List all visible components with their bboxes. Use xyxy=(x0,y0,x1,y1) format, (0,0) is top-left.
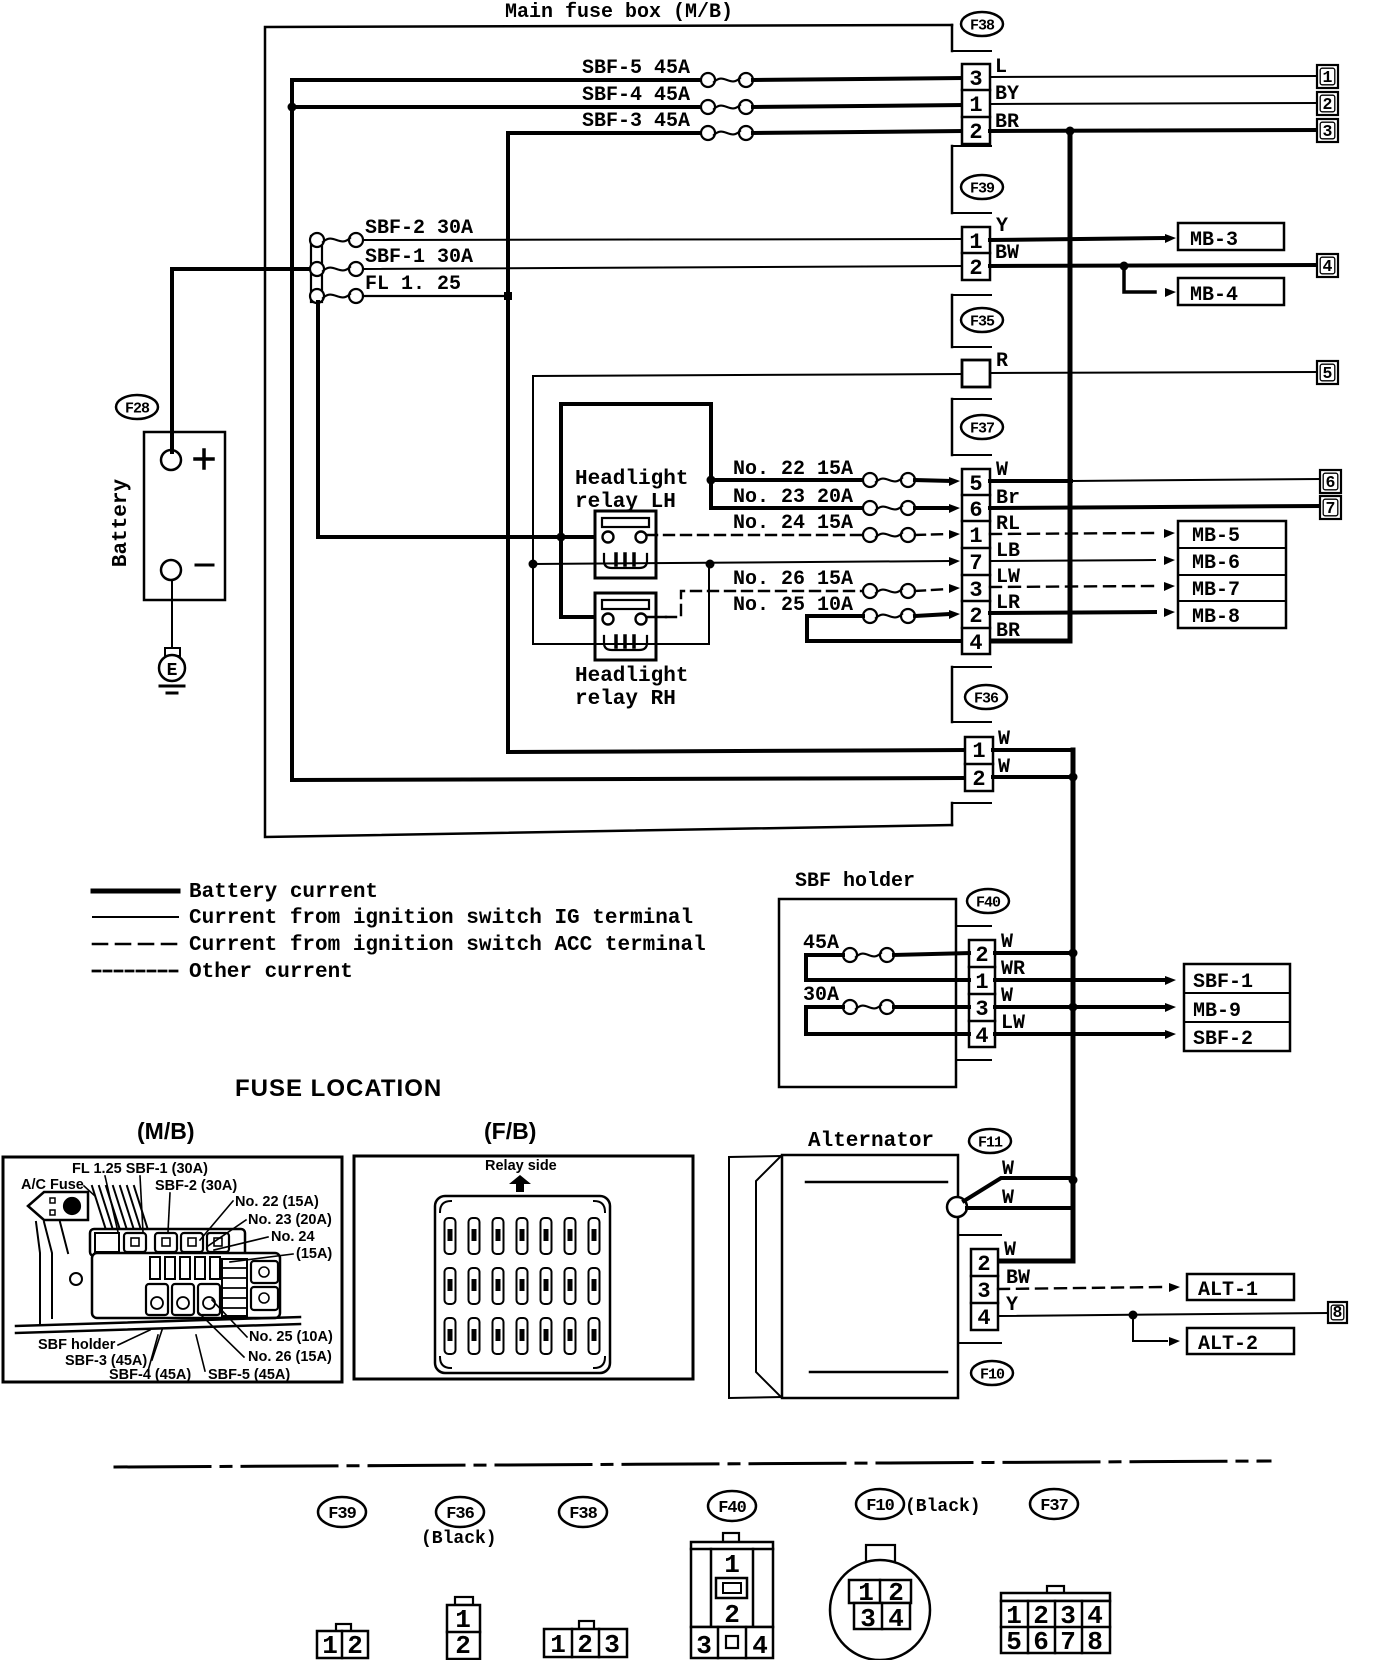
battery xyxy=(144,432,225,600)
svg-text:SBF-1: SBF-1 xyxy=(1193,971,1253,994)
wire No.24 dashed from relay LH xyxy=(647,534,863,536)
svg-text:W: W xyxy=(1004,1239,1016,1262)
MB-5..MB-8 box xyxy=(1178,521,1286,628)
junction BR bus xyxy=(1066,127,1075,136)
wire SBF-1 to F39 pin 2 xyxy=(363,266,962,269)
wire battery minus to ground xyxy=(171,580,173,648)
wire relay coil return loop xyxy=(533,564,709,644)
svg-text:2: 2 xyxy=(969,120,982,145)
svg-text:E: E xyxy=(167,661,178,681)
wire SBF-2 to F39 pin 1 xyxy=(363,239,962,240)
svg-text:Headlight: Headlight xyxy=(575,665,688,688)
connector F39 oval (bottom) xyxy=(318,1497,366,1527)
svg-text:6: 6 xyxy=(969,498,982,523)
connector F38 pins xyxy=(962,64,990,144)
svg-text:BY: BY xyxy=(995,83,1019,106)
svg-text:MB-3: MB-3 xyxy=(1190,229,1238,252)
wire branch to MB-4 xyxy=(1124,266,1155,292)
bottom separator dash-dot line xyxy=(115,1461,1270,1467)
junction pin3 W / bus xyxy=(1069,1003,1078,1012)
connector F35 oval xyxy=(961,308,1003,332)
svg-text:relay RH: relay RH xyxy=(575,688,676,711)
svg-text:MB-4: MB-4 xyxy=(1190,284,1238,307)
svg-text:45A: 45A xyxy=(803,932,839,955)
wire No.24 to F37 pin 1 xyxy=(915,534,948,535)
svg-text:Main fuse box (M/B): Main fuse box (M/B) xyxy=(505,1,733,24)
svg-text:F36: F36 xyxy=(974,690,999,707)
wire No.22 to F37 pin 5 xyxy=(915,480,950,481)
svg-text:F38: F38 xyxy=(970,17,995,34)
svg-text:SBF-3 45A: SBF-3 45A xyxy=(582,110,690,133)
connector 2 xyxy=(1317,92,1338,115)
M/B picture left bracket xyxy=(70,1273,82,1285)
fuse No.24 15A xyxy=(863,528,877,542)
svg-text:(Black): (Black) xyxy=(421,1529,497,1549)
svg-text:F10: F10 xyxy=(866,1497,894,1516)
M/B picture right sockets xyxy=(251,1261,278,1283)
svg-text:2: 2 xyxy=(1323,95,1333,114)
connector F35 pin R xyxy=(962,360,990,387)
connector 7 xyxy=(1320,496,1341,519)
svg-text:Relay side: Relay side xyxy=(485,1158,557,1174)
connector F11 oval xyxy=(969,1129,1011,1153)
svg-text:SBF-5 (45A): SBF-5 (45A) xyxy=(208,1367,290,1383)
fuse No.25 10A xyxy=(863,609,877,623)
M/B picture A/C fuse banner xyxy=(28,1192,88,1220)
SBF holder box xyxy=(779,899,956,1087)
MB-3 box xyxy=(1178,223,1284,250)
ground E circle xyxy=(159,655,185,681)
svg-text:5: 5 xyxy=(1323,364,1333,383)
SBF holder bracket stubs xyxy=(956,925,991,927)
junction battery bus / SBF-4 xyxy=(288,103,297,112)
svg-text:6: 6 xyxy=(1326,473,1336,492)
svg-text:No. 26 (15A): No. 26 (15A) xyxy=(248,1349,332,1365)
F/B picture frame xyxy=(354,1156,693,1379)
connector F36 pins xyxy=(965,737,993,791)
svg-text:F28: F28 xyxy=(125,400,150,417)
svg-text:ALT-1: ALT-1 xyxy=(1198,1279,1258,1302)
svg-text:F35: F35 xyxy=(970,313,995,330)
svg-text:2: 2 xyxy=(724,1600,740,1630)
legend other current xyxy=(93,970,178,973)
ALT-1 box xyxy=(1187,1274,1294,1300)
connector F39 oval xyxy=(961,175,1003,199)
svg-text:MB-5: MB-5 xyxy=(1192,525,1240,548)
svg-text:2: 2 xyxy=(969,604,982,629)
svg-text:No. 25 10A: No. 25 10A xyxy=(733,594,853,617)
svg-text:No. 24 15A: No. 24 15A xyxy=(733,512,853,535)
svg-text:Y: Y xyxy=(1006,1294,1018,1317)
svg-text:No. 23 20A: No. 23 20A xyxy=(733,486,853,509)
M/B picture ladder xyxy=(222,1259,247,1316)
svg-text:1: 1 xyxy=(969,524,982,549)
svg-text:R: R xyxy=(996,350,1008,373)
svg-text:F10: F10 xyxy=(980,1366,1005,1383)
wire No.23 to F37 pin 6 xyxy=(915,506,950,510)
connector F37 oval (bottom) xyxy=(1030,1489,1078,1519)
alternator body xyxy=(782,1155,958,1398)
svg-text:5: 5 xyxy=(1006,1627,1022,1657)
connector F10 round face xyxy=(866,1545,895,1562)
connector bracket stubs on main box right edge xyxy=(952,50,991,52)
fuse SBF-2 30A xyxy=(310,233,324,247)
svg-text:(M/B): (M/B) xyxy=(137,1118,194,1144)
wire main vertical bus to alternator xyxy=(998,750,1073,1261)
svg-text:7: 7 xyxy=(969,551,982,576)
svg-text:F37: F37 xyxy=(970,420,994,437)
svg-text:7: 7 xyxy=(1326,499,1336,518)
connector F40 pin face xyxy=(723,1533,739,1542)
fuse bus bar xyxy=(311,236,322,302)
wire branch to ALT-2 xyxy=(1133,1315,1167,1341)
svg-text:SBF-2 (30A): SBF-2 (30A) xyxy=(155,1178,237,1194)
svg-text:Y: Y xyxy=(996,215,1008,238)
connector 5 xyxy=(1317,361,1338,384)
svg-text:Current from ignition switch A: Current from ignition switch ACC termina… xyxy=(189,934,706,957)
svg-text:Battery current: Battery current xyxy=(189,881,378,904)
fuse SBF-5 45A xyxy=(292,78,708,82)
connector F38 pin face xyxy=(579,1621,594,1629)
svg-text:L: L xyxy=(995,56,1007,79)
relay side up arrow xyxy=(509,1175,531,1192)
svg-text:SBF-2 30A: SBF-2 30A xyxy=(365,217,473,240)
alternator pulley xyxy=(729,1156,782,1398)
fuse No.22 15A xyxy=(711,478,863,482)
wire SBF-4 to F38 pin 1 xyxy=(753,105,962,107)
battery plus sign xyxy=(195,457,213,461)
svg-text:MB-6: MB-6 xyxy=(1192,552,1240,575)
svg-text:4: 4 xyxy=(977,1306,990,1331)
connector F10 oval (bottom) xyxy=(856,1489,904,1519)
svg-text:2: 2 xyxy=(577,1630,593,1660)
connector F38 oval (bottom) xyxy=(559,1497,607,1527)
svg-text:FL 1.25 SBF-1 (30A): FL 1.25 SBF-1 (30A) xyxy=(72,1161,208,1177)
svg-text:1: 1 xyxy=(969,93,982,118)
junction square FL/bus xyxy=(504,292,512,300)
fuse SBF-3 45A xyxy=(508,131,708,135)
connector F39 pin face xyxy=(336,1624,351,1632)
wire SBF-5 to F38 pin 3 xyxy=(753,78,962,80)
svg-text:F39: F39 xyxy=(328,1505,356,1524)
relay LH xyxy=(595,511,656,578)
svg-text:2: 2 xyxy=(972,767,985,792)
svg-text:Headlight: Headlight xyxy=(575,468,688,491)
connector F37 oval xyxy=(961,415,1003,439)
svg-text:MB-7: MB-7 xyxy=(1192,579,1240,602)
SBF-1 / MB-9 / SBF-2 boxes xyxy=(1184,964,1290,1051)
svg-text:3: 3 xyxy=(975,997,988,1022)
fuse SBF-4 45A xyxy=(292,105,708,109)
svg-text:F38: F38 xyxy=(569,1505,597,1524)
svg-text:F37: F37 xyxy=(1040,1497,1068,1516)
wire 45A fuse return to F40 pin 1 xyxy=(806,955,969,980)
M/B picture main body xyxy=(92,1253,280,1318)
connector F37 pin face xyxy=(1047,1586,1064,1594)
svg-text:3: 3 xyxy=(969,578,982,603)
MB-4 box xyxy=(1178,278,1284,305)
svg-text:3: 3 xyxy=(969,67,982,92)
fuse FL 1.25 xyxy=(310,289,324,303)
wire 45A fuse to F40 pin 2 xyxy=(894,953,969,955)
junction BW / MB-4 branch xyxy=(1120,262,1129,271)
junction Y / ALT-2 branch xyxy=(1129,1311,1138,1320)
svg-text:4: 4 xyxy=(752,1631,768,1660)
svg-text:Other current: Other current xyxy=(189,961,353,984)
junction relay feed split xyxy=(557,533,566,542)
fuse No.23 20A xyxy=(711,506,863,510)
svg-text:F40: F40 xyxy=(976,894,1001,911)
F/B fuse panel xyxy=(435,1196,610,1373)
svg-text:F11: F11 xyxy=(978,1134,1003,1151)
svg-text:W: W xyxy=(998,728,1010,751)
wire relay feeder loop to fuses No.22/23 xyxy=(561,404,711,537)
svg-text:7: 7 xyxy=(1060,1627,1076,1657)
svg-text:A/C Fuse: A/C Fuse xyxy=(21,1177,84,1193)
connector F36 oval (bottom) xyxy=(436,1497,484,1527)
wire No.25 to F37 pin 2 xyxy=(915,614,950,616)
connector F36 pin face xyxy=(455,1597,473,1605)
svg-text:SBF holder: SBF holder xyxy=(795,870,915,893)
alternator terminal circle xyxy=(947,1197,967,1217)
svg-text:6: 6 xyxy=(1033,1627,1049,1657)
connector F39 pins xyxy=(962,227,990,280)
svg-text:LB: LB xyxy=(996,540,1020,563)
svg-text:3: 3 xyxy=(696,1631,712,1660)
svg-text:MB-9: MB-9 xyxy=(1193,1000,1241,1023)
F/B corner decorations xyxy=(440,1201,451,1212)
svg-text:1: 1 xyxy=(322,1631,338,1660)
svg-text:5: 5 xyxy=(969,472,982,497)
connector 1 xyxy=(1317,65,1338,88)
svg-text:No. 25 (10A): No. 25 (10A) xyxy=(249,1329,333,1345)
battery minus sign xyxy=(196,564,213,567)
svg-text:No. 24: No. 24 xyxy=(271,1229,315,1245)
svg-text:2: 2 xyxy=(455,1631,471,1660)
connector 4 xyxy=(1317,254,1338,277)
svg-text:1: 1 xyxy=(972,739,985,764)
wire FL to vertical bus xyxy=(363,295,508,297)
svg-text:2: 2 xyxy=(969,256,982,281)
fuse SBF-1 30A xyxy=(310,262,324,276)
junction alternator W / bus xyxy=(1069,1176,1078,1185)
svg-text:(15A): (15A) xyxy=(296,1246,332,1262)
svg-text:BW: BW xyxy=(1006,1267,1030,1290)
svg-text:MB-8: MB-8 xyxy=(1192,606,1240,629)
svg-text:2: 2 xyxy=(975,943,988,968)
connector 8 xyxy=(1328,1302,1347,1323)
wire FL bus vertical (SBF-3 / F36 pin1 feed) xyxy=(508,133,965,752)
ground terminal box xyxy=(165,648,180,656)
relay RH xyxy=(595,593,656,660)
svg-text:WR: WR xyxy=(1001,958,1025,981)
svg-text:SBF-2: SBF-2 xyxy=(1193,1028,1253,1051)
svg-text:ALT-2: ALT-2 xyxy=(1198,1333,1258,1356)
svg-text:W: W xyxy=(996,459,1008,482)
M/B picture top fuse row xyxy=(90,1229,245,1256)
connector 3 xyxy=(1317,119,1338,142)
ground symbol xyxy=(160,685,184,688)
junction coil loop left xyxy=(529,560,538,569)
F/B fuses grid xyxy=(445,1218,456,1254)
svg-text:3: 3 xyxy=(860,1604,876,1634)
svg-text:No. 23 (20A): No. 23 (20A) xyxy=(248,1212,332,1228)
svg-text:2: 2 xyxy=(977,1252,990,1277)
svg-text:RL: RL xyxy=(996,513,1020,536)
svg-text:(Black): (Black) xyxy=(905,1497,981,1517)
svg-text:SBF-4 (45A): SBF-4 (45A) xyxy=(109,1367,191,1383)
wire battery bus vertical (SBF-5/SBF-4 feed) xyxy=(292,80,965,780)
svg-text:1: 1 xyxy=(1323,68,1333,87)
connector F40 oval (bottom) xyxy=(708,1491,756,1521)
connector 6 xyxy=(1320,470,1341,493)
wire R net to F35 pin xyxy=(533,374,962,564)
svg-text:FUSE LOCATION: FUSE LOCATION xyxy=(235,1075,442,1102)
svg-text:LW: LW xyxy=(996,566,1020,589)
M/B picture leader lines xyxy=(105,1176,118,1232)
connector F40 pins xyxy=(969,940,995,1047)
M/B picture vertical slots xyxy=(150,1257,160,1279)
svg-text:1: 1 xyxy=(724,1550,740,1580)
junction pin2 W / bus xyxy=(1069,949,1078,958)
M/B picture big fuses xyxy=(146,1284,168,1315)
alternator bracket stubs xyxy=(958,1234,1001,1236)
svg-text:4: 4 xyxy=(975,1024,988,1049)
svg-text:1: 1 xyxy=(550,1630,566,1660)
svg-text:2: 2 xyxy=(347,1631,363,1660)
wire No.26 dashed from relay RH xyxy=(647,616,666,618)
svg-text:30A: 30A xyxy=(803,984,839,1007)
wire LB relay coils to F37 pin 7 xyxy=(533,561,950,564)
junction coil loop right xyxy=(706,560,715,569)
svg-text:F39: F39 xyxy=(970,180,995,197)
svg-text:FL 1. 25: FL 1. 25 xyxy=(365,273,461,296)
svg-text:W: W xyxy=(1001,985,1013,1008)
wire battery plus to fuse bus xyxy=(172,269,313,452)
svg-text:SBF-5 45A: SBF-5 45A xyxy=(582,57,690,80)
svg-text:F36: F36 xyxy=(446,1505,474,1524)
svg-text:8: 8 xyxy=(1087,1627,1103,1657)
alternator connector pins xyxy=(971,1249,998,1330)
svg-text:SBF holder: SBF holder xyxy=(38,1337,116,1353)
main fuse box outline xyxy=(265,25,952,837)
junction No.22 tap xyxy=(707,476,716,485)
svg-text:4: 4 xyxy=(1323,257,1333,276)
svg-text:No. 22 (15A): No. 22 (15A) xyxy=(235,1194,319,1210)
svg-text:SBF-1 30A: SBF-1 30A xyxy=(365,246,473,269)
ALT-2 box xyxy=(1187,1328,1294,1354)
M/B picture frame xyxy=(3,1157,342,1382)
wire No.25 feed from F37 pin 4 xyxy=(807,616,962,641)
svg-text:4: 4 xyxy=(888,1604,904,1634)
wire 30A fuse to F40 pin 3 xyxy=(894,1005,969,1009)
svg-text:No. 26 15A: No. 26 15A xyxy=(733,568,853,591)
connector F40 oval xyxy=(967,889,1009,913)
svg-text:W: W xyxy=(1001,931,1013,954)
connector F36 oval xyxy=(965,685,1007,709)
wire SBF-3 to F38 pin 2 xyxy=(753,131,962,133)
wire relay RH feed xyxy=(561,537,602,617)
svg-text:4: 4 xyxy=(969,631,982,656)
M/B picture hatching xyxy=(92,1186,106,1230)
connector F38 oval xyxy=(961,12,1003,36)
svg-text:SBF-4 45A: SBF-4 45A xyxy=(582,84,690,107)
wire No.26 to F37 pin 3 xyxy=(915,589,948,591)
svg-text:Current from ignition switch I: Current from ignition switch IG terminal xyxy=(189,907,693,930)
svg-text:LW: LW xyxy=(1001,1012,1025,1035)
legend battery current xyxy=(93,889,178,894)
svg-text:(F/B): (F/B) xyxy=(484,1118,536,1144)
svg-text:3: 3 xyxy=(1323,122,1333,141)
svg-text:Battery: Battery xyxy=(110,478,133,567)
connector F10 oval xyxy=(971,1361,1013,1385)
svg-text:Alternator: Alternator xyxy=(808,1130,934,1153)
junction F36 pin2 / main bus xyxy=(1069,773,1078,782)
connector F28 oval xyxy=(116,395,158,419)
svg-text:F40: F40 xyxy=(718,1499,746,1518)
svg-text:BR: BR xyxy=(996,620,1020,643)
svg-text:No. 22 15A: No. 22 15A xyxy=(733,458,853,481)
svg-text:8: 8 xyxy=(1333,1303,1343,1322)
wire fuse bus to headlight relays xyxy=(318,302,602,537)
svg-text:3: 3 xyxy=(977,1279,990,1304)
svg-text:1: 1 xyxy=(969,230,982,255)
legend ACC terminal current xyxy=(93,943,178,946)
fuse No.26 15A xyxy=(863,584,877,598)
wire BR vertical bus to F37 pin 4 xyxy=(990,131,1070,641)
wire 30A fuse return to F40 pin 4 xyxy=(806,1007,969,1034)
legend IG terminal current xyxy=(93,916,178,918)
svg-text:BW: BW xyxy=(995,242,1019,265)
connector F37 pins xyxy=(962,469,990,654)
svg-text:1: 1 xyxy=(975,970,988,995)
svg-text:3: 3 xyxy=(604,1630,620,1660)
M/B picture ground lines xyxy=(16,1317,300,1326)
